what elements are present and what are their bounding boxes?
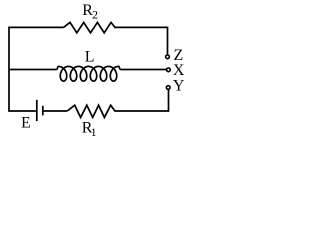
svg-text:X: X xyxy=(173,62,185,79)
svg-text:2: 2 xyxy=(92,8,98,22)
svg-text:1: 1 xyxy=(91,125,97,138)
svg-text:Y: Y xyxy=(173,78,185,95)
svg-text:L: L xyxy=(85,49,95,66)
svg-text:E: E xyxy=(21,115,30,132)
